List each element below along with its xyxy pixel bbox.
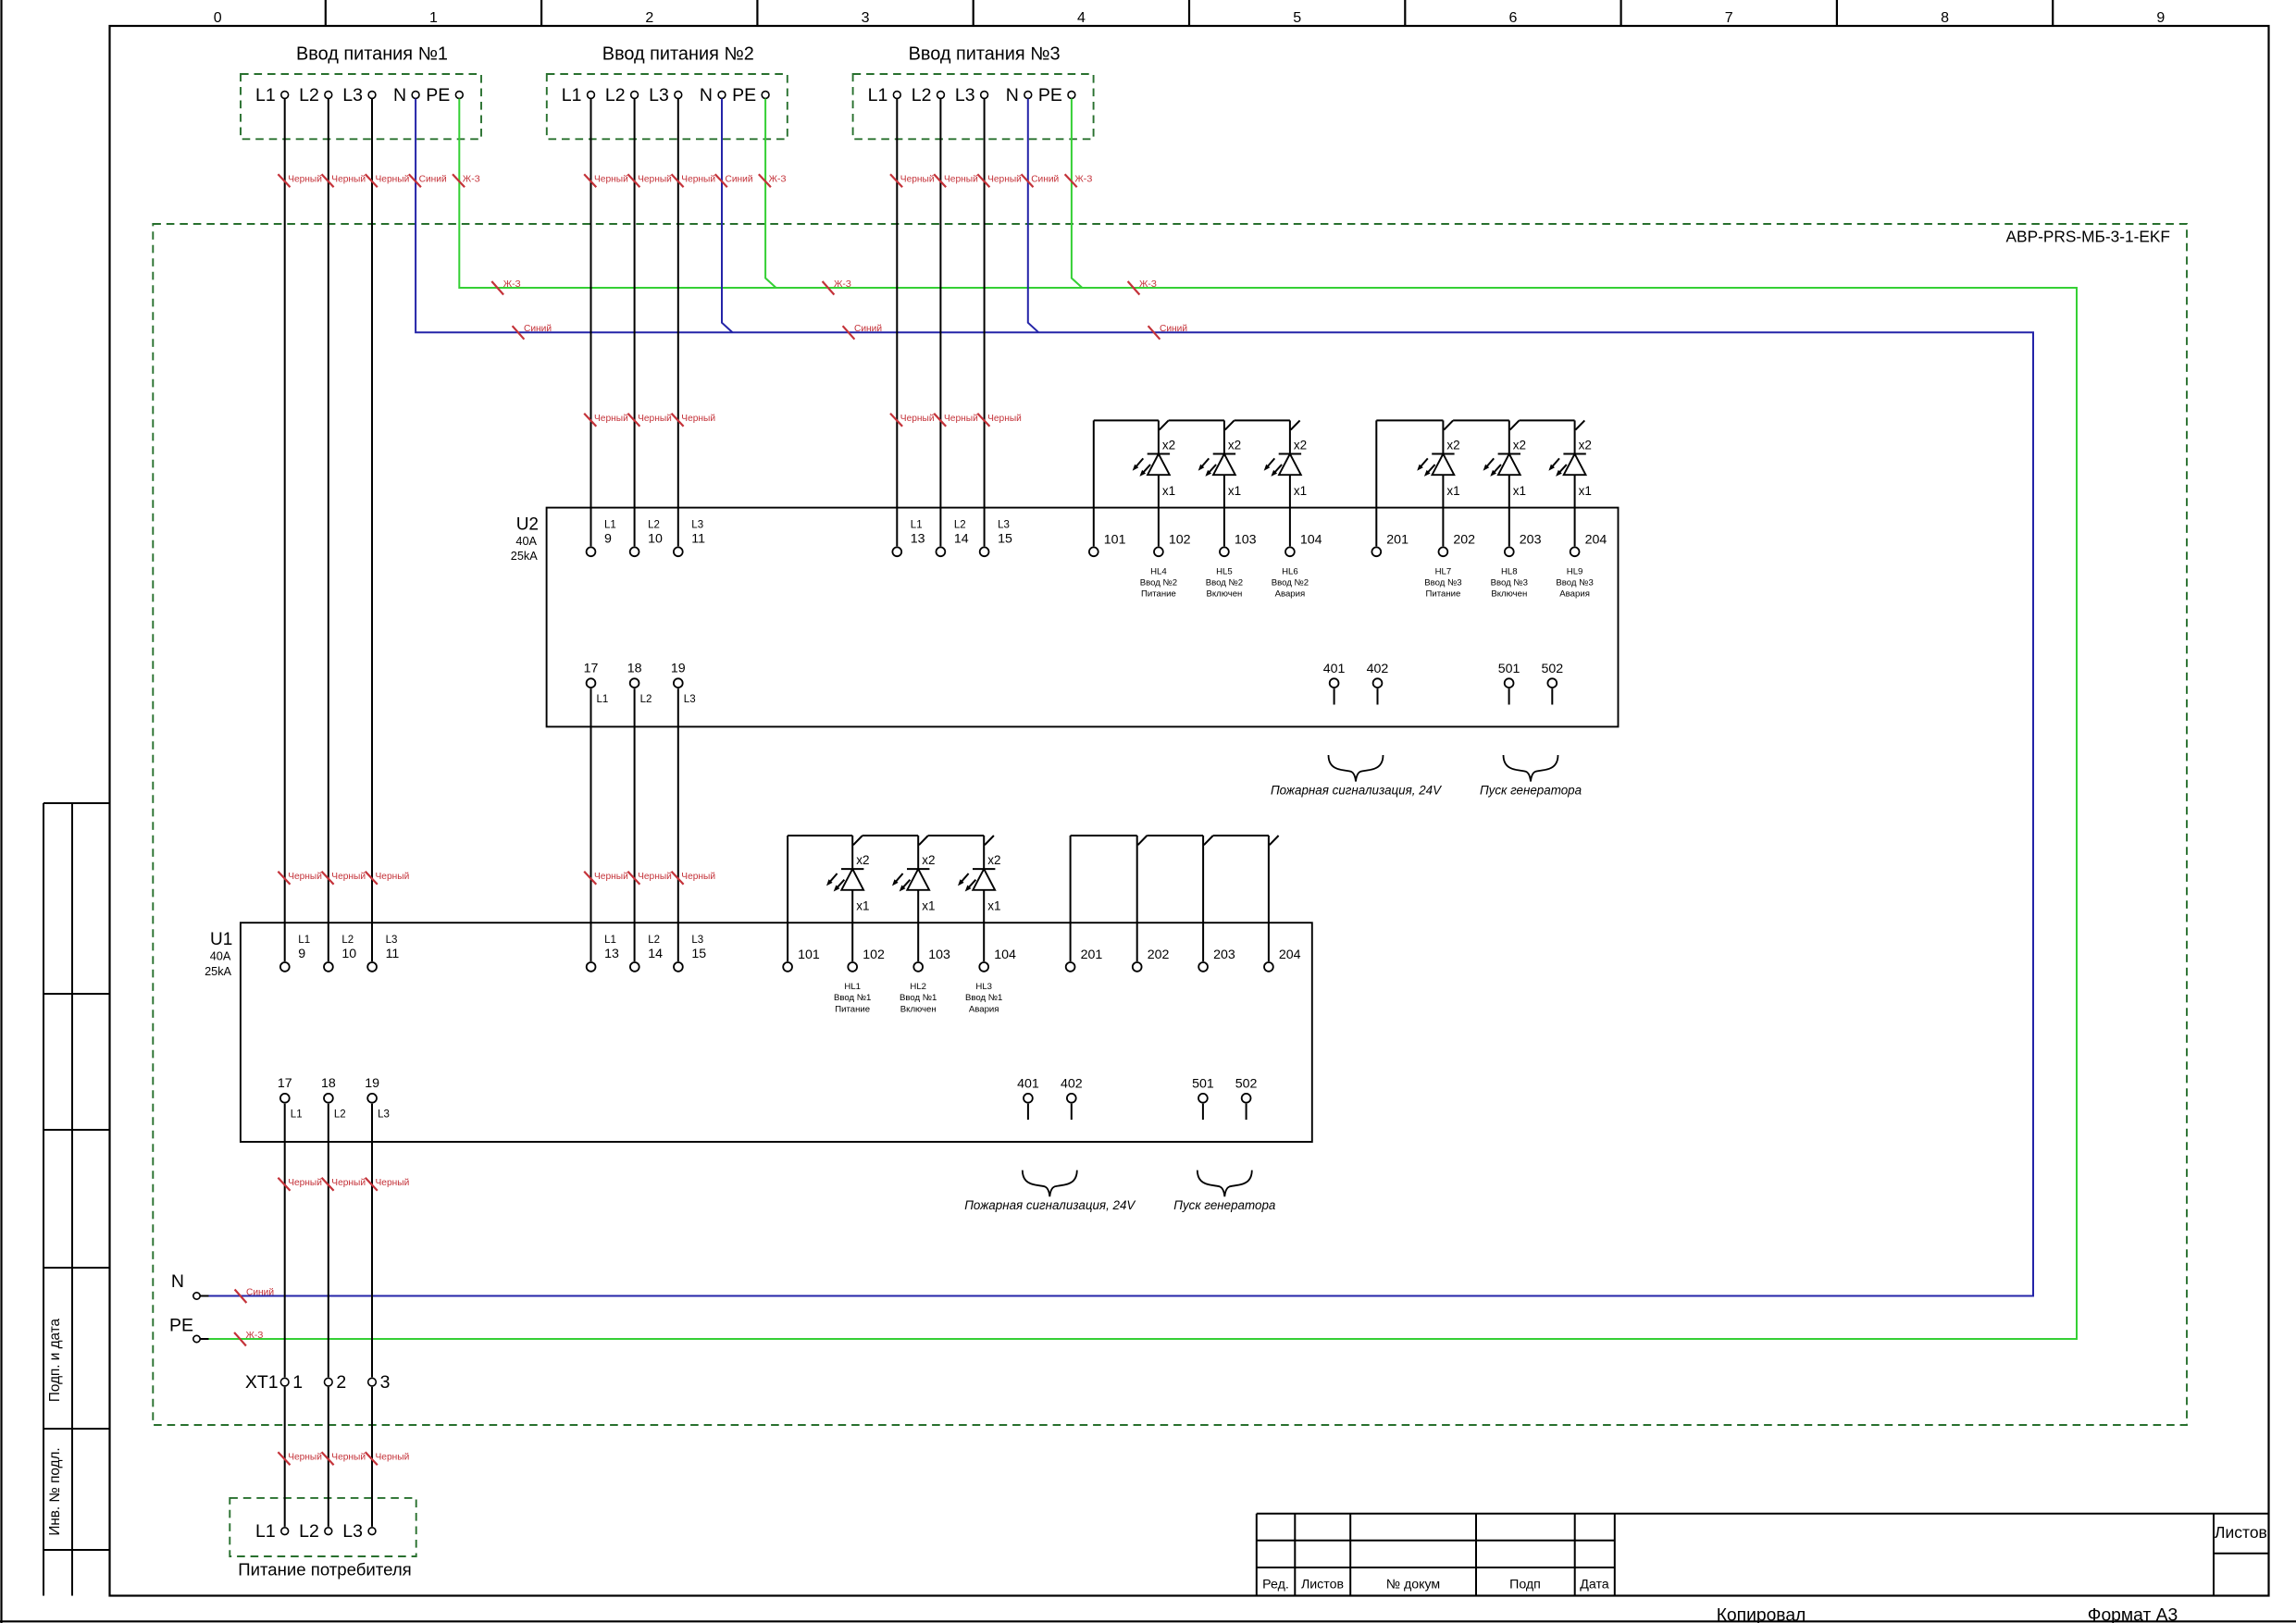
svg-text:L2: L2 — [640, 694, 652, 705]
svg-text:Ввод №1: Ввод №1 — [965, 993, 1002, 1003]
svg-text:2: 2 — [645, 10, 653, 26]
svg-text:x1: x1 — [922, 899, 935, 913]
svg-text:Синий: Синий — [726, 175, 753, 185]
svg-text:Черный: Черный — [331, 175, 366, 185]
svg-text:U2: U2 — [516, 515, 539, 535]
svg-text:401: 401 — [1017, 1077, 1039, 1092]
svg-text:HL2: HL2 — [910, 982, 926, 992]
svg-text:L1: L1 — [291, 1109, 303, 1121]
svg-text:5: 5 — [1293, 10, 1301, 26]
svg-text:Синий: Синий — [1031, 175, 1059, 185]
svg-text:502: 502 — [1541, 662, 1563, 676]
svg-text:PE: PE — [169, 1316, 193, 1336]
svg-text:Пуск генератора: Пуск генератора — [1173, 1198, 1275, 1212]
svg-text:3: 3 — [862, 10, 870, 26]
svg-text:L1: L1 — [911, 520, 923, 531]
svg-text:13: 13 — [911, 532, 925, 547]
svg-text:x2: x2 — [1294, 439, 1307, 452]
svg-text:PE: PE — [1038, 85, 1062, 105]
svg-text:13: 13 — [604, 947, 619, 961]
svg-text:HL5: HL5 — [1216, 567, 1233, 577]
svg-text:Черный: Черный — [900, 175, 935, 185]
svg-text:Ввод №1: Ввод №1 — [834, 993, 871, 1003]
svg-text:501: 501 — [1192, 1077, 1214, 1092]
svg-text:17: 17 — [584, 661, 599, 675]
svg-text:402: 402 — [1367, 662, 1389, 676]
svg-text:HL7: HL7 — [1435, 567, 1452, 577]
svg-text:11: 11 — [386, 947, 400, 961]
svg-text:9: 9 — [604, 532, 612, 547]
svg-text:Черный: Черный — [987, 414, 1022, 424]
svg-text:Черный: Черный — [681, 872, 715, 882]
svg-text:L3: L3 — [649, 85, 669, 105]
svg-text:203: 203 — [1520, 532, 1542, 547]
svg-text:Пуск генератора: Пуск генератора — [1480, 784, 1582, 798]
svg-text:L2: L2 — [648, 520, 660, 531]
svg-text:10: 10 — [341, 947, 356, 961]
svg-text:Авария: Авария — [1559, 589, 1590, 600]
svg-text:Черный: Черный — [331, 1178, 366, 1188]
svg-text:L1: L1 — [255, 85, 276, 105]
svg-text:Черный: Черный — [638, 414, 672, 424]
svg-text:Черный: Черный — [594, 872, 628, 882]
svg-text:Дата: Дата — [1580, 1578, 1609, 1592]
svg-text:0: 0 — [214, 10, 222, 26]
svg-text:Формат А3: Формат А3 — [2088, 1606, 2178, 1623]
svg-text:N: N — [171, 1271, 184, 1292]
svg-text:Ж-З: Ж-З — [834, 279, 851, 290]
svg-text:203: 203 — [1213, 948, 1235, 962]
svg-text:4: 4 — [1077, 10, 1086, 26]
svg-text:Ввод №3: Ввод №3 — [1491, 578, 1528, 588]
svg-text:Черный: Черный — [376, 1453, 410, 1463]
svg-text:Черный: Черный — [288, 1178, 322, 1188]
svg-text:101: 101 — [798, 948, 820, 962]
svg-text:Ввод №2: Ввод №2 — [1272, 578, 1309, 588]
svg-text:x1: x1 — [1294, 484, 1307, 498]
svg-text:L1: L1 — [255, 1521, 276, 1542]
svg-text:x1: x1 — [1162, 484, 1175, 498]
svg-text:1: 1 — [429, 10, 438, 26]
svg-text:Питание: Питание — [1141, 589, 1176, 600]
svg-text:x1: x1 — [856, 899, 869, 913]
svg-text:102: 102 — [863, 948, 885, 962]
svg-text:14: 14 — [954, 532, 969, 547]
svg-text:L1: L1 — [298, 935, 310, 946]
svg-text:202: 202 — [1453, 532, 1475, 547]
svg-text:x1: x1 — [1513, 484, 1526, 498]
svg-text:6: 6 — [1509, 10, 1518, 26]
svg-text:Черный: Черный — [944, 414, 978, 424]
svg-text:L3: L3 — [342, 1521, 363, 1542]
svg-text:Черный: Черный — [594, 175, 628, 185]
svg-text:Включен: Включен — [900, 1004, 937, 1014]
svg-text:Черный: Черный — [288, 1453, 322, 1463]
svg-text:40A: 40A — [210, 950, 231, 963]
svg-text:Синий: Синий — [854, 324, 882, 334]
svg-text:HL4: HL4 — [1150, 567, 1167, 577]
svg-text:Черный: Черный — [681, 175, 715, 185]
svg-text:x2: x2 — [1228, 439, 1241, 452]
svg-text:Ввод питания №3: Ввод питания №3 — [909, 44, 1061, 65]
svg-text:103: 103 — [928, 948, 950, 962]
svg-text:17: 17 — [278, 1076, 292, 1091]
svg-text:204: 204 — [1585, 532, 1607, 547]
svg-text:Черный: Черный — [638, 872, 672, 882]
svg-text:АВР-PRS-МБ-3-1-EKF: АВР-PRS-МБ-3-1-EKF — [2006, 228, 2170, 246]
svg-text:Копировал: Копировал — [1717, 1606, 1806, 1623]
svg-text:L2: L2 — [954, 520, 966, 531]
svg-text:L3: L3 — [998, 520, 1010, 531]
svg-text:L3: L3 — [342, 85, 363, 105]
svg-text:x1: x1 — [1446, 484, 1459, 498]
svg-text:L2: L2 — [648, 935, 660, 946]
svg-text:x2: x2 — [1162, 439, 1175, 452]
svg-text:Включен: Включен — [1491, 589, 1527, 600]
svg-text:Питание: Питание — [1425, 589, 1460, 600]
svg-text:14: 14 — [648, 947, 663, 961]
svg-text:Ввод №1: Ввод №1 — [900, 993, 937, 1003]
svg-text:x2: x2 — [1446, 439, 1459, 452]
svg-text:x1: x1 — [1579, 484, 1592, 498]
svg-text:Синий: Синий — [524, 324, 552, 334]
svg-text:Ввод №2: Ввод №2 — [1206, 578, 1243, 588]
svg-text:Ввод питания №2: Ввод питания №2 — [602, 44, 754, 65]
svg-text:x2: x2 — [856, 853, 869, 867]
svg-text:ХТ1: ХТ1 — [245, 1372, 279, 1393]
svg-text:L3: L3 — [691, 520, 703, 531]
svg-text:Ввод питания №1: Ввод питания №1 — [296, 44, 448, 65]
svg-text:Листов: Листов — [2215, 1523, 2267, 1542]
svg-text:x2: x2 — [922, 853, 935, 867]
svg-text:Ж-З: Ж-З — [246, 1331, 264, 1341]
svg-text:Ж-З: Ж-З — [769, 175, 787, 185]
svg-text:Включен: Включен — [1206, 589, 1242, 600]
svg-text:202: 202 — [1148, 948, 1170, 962]
svg-text:Черный: Черный — [944, 175, 978, 185]
svg-text:501: 501 — [1498, 662, 1520, 676]
svg-text:L2: L2 — [605, 85, 626, 105]
svg-text:11: 11 — [691, 532, 705, 547]
svg-text:HL1: HL1 — [844, 982, 861, 992]
svg-text:40A: 40A — [515, 535, 537, 548]
svg-text:9: 9 — [2156, 10, 2165, 26]
svg-text:3: 3 — [380, 1372, 391, 1393]
svg-text:N: N — [700, 85, 713, 105]
svg-text:1: 1 — [292, 1372, 303, 1393]
svg-text:204: 204 — [1279, 948, 1301, 962]
svg-text:x2: x2 — [1513, 439, 1526, 452]
svg-text:9: 9 — [298, 947, 305, 961]
svg-text:L1: L1 — [604, 520, 616, 531]
svg-text:Пожарная сигнализация, 24V: Пожарная сигнализация, 24V — [964, 1198, 1136, 1212]
svg-text:N: N — [393, 85, 406, 105]
svg-text:Черный: Черный — [376, 1178, 410, 1188]
svg-text:2: 2 — [336, 1372, 346, 1393]
svg-text:L3: L3 — [955, 85, 975, 105]
svg-text:Ввод №2: Ввод №2 — [1140, 578, 1177, 588]
svg-text:10: 10 — [648, 532, 663, 547]
svg-text:Ж-З: Ж-З — [463, 175, 480, 185]
svg-text:HL3: HL3 — [975, 982, 992, 992]
svg-text:401: 401 — [1323, 662, 1346, 676]
svg-text:HL8: HL8 — [1501, 567, 1518, 577]
svg-text:Черный: Черный — [376, 872, 410, 882]
svg-text:502: 502 — [1235, 1077, 1258, 1092]
svg-text:L1: L1 — [868, 85, 888, 105]
svg-text:Синий: Синий — [1160, 324, 1187, 334]
svg-text:HL9: HL9 — [1567, 567, 1583, 577]
svg-text:Ред.: Ред. — [1262, 1578, 1289, 1592]
svg-text:8: 8 — [1941, 10, 1949, 26]
svg-text:Инв. № подл.: Инв. № подл. — [47, 1447, 63, 1535]
svg-text:Подп: Подп — [1509, 1578, 1541, 1592]
svg-text:L1: L1 — [604, 935, 616, 946]
svg-text:x2: x2 — [987, 853, 1000, 867]
svg-text:Ж-З: Ж-З — [1139, 279, 1157, 290]
svg-text:L3: L3 — [684, 694, 696, 705]
svg-text:Черный: Черный — [376, 175, 410, 185]
svg-text:Авария: Авария — [1275, 589, 1306, 600]
svg-text:L2: L2 — [912, 85, 932, 105]
svg-text:402: 402 — [1061, 1077, 1083, 1092]
svg-text:Подп. и дата: Подп. и дата — [47, 1318, 63, 1402]
svg-text:Черный: Черный — [288, 872, 322, 882]
svg-text:L2: L2 — [299, 85, 319, 105]
svg-text:HL6: HL6 — [1282, 567, 1298, 577]
svg-text:Черный: Черный — [987, 175, 1022, 185]
svg-text:Ж-З: Ж-З — [1074, 175, 1092, 185]
svg-text:Черный: Черный — [594, 414, 628, 424]
svg-text:Питание: Питание — [835, 1004, 870, 1014]
svg-text:104: 104 — [994, 948, 1016, 962]
svg-text:Синий: Синий — [246, 1287, 274, 1297]
svg-text:Черный: Черный — [638, 175, 672, 185]
svg-text:Черный: Черный — [681, 414, 715, 424]
svg-text:Черный: Черный — [900, 414, 935, 424]
svg-text:Пожарная сигнализация, 24V: Пожарная сигнализация, 24V — [1271, 784, 1442, 798]
svg-text:x1: x1 — [1228, 484, 1241, 498]
svg-text:Питание потребителя: Питание потребителя — [238, 1560, 412, 1580]
svg-text:Листов: Листов — [1301, 1578, 1344, 1592]
svg-text:25kA: 25kA — [205, 965, 231, 978]
svg-text:19: 19 — [671, 661, 686, 675]
svg-text:Авария: Авария — [969, 1004, 999, 1014]
svg-text:Черный: Черный — [288, 175, 322, 185]
svg-text:PE: PE — [426, 85, 450, 105]
svg-text:7: 7 — [1725, 10, 1733, 26]
svg-text:Черный: Черный — [331, 872, 366, 882]
svg-text:102: 102 — [1169, 532, 1191, 547]
svg-text:18: 18 — [321, 1076, 336, 1091]
svg-text:N: N — [1006, 85, 1019, 105]
svg-text:L3: L3 — [378, 1109, 390, 1121]
svg-text:Ж-З: Ж-З — [503, 279, 521, 290]
svg-text:103: 103 — [1235, 532, 1257, 547]
svg-text:L1: L1 — [597, 694, 609, 705]
svg-text:PE: PE — [732, 85, 756, 105]
svg-text:L1: L1 — [562, 85, 582, 105]
svg-text:Синий: Синий — [419, 175, 447, 185]
svg-text:x1: x1 — [987, 899, 1000, 913]
svg-text:101: 101 — [1104, 532, 1126, 547]
svg-text:Ввод №3: Ввод №3 — [1556, 578, 1593, 588]
svg-text:104: 104 — [1300, 532, 1322, 547]
svg-text:25kA: 25kA — [511, 550, 538, 563]
svg-text:L2: L2 — [334, 1109, 346, 1121]
svg-text:Черный: Черный — [331, 1453, 366, 1463]
svg-text:19: 19 — [365, 1076, 379, 1091]
svg-text:x2: x2 — [1579, 439, 1592, 452]
svg-text:№ докум: № докум — [1386, 1578, 1440, 1592]
svg-text:15: 15 — [691, 947, 706, 961]
svg-text:L3: L3 — [386, 935, 398, 946]
svg-text:15: 15 — [998, 532, 1012, 547]
svg-text:L3: L3 — [691, 935, 703, 946]
svg-text:Ввод №3: Ввод №3 — [1424, 578, 1461, 588]
svg-text:L2: L2 — [299, 1521, 319, 1542]
svg-text:201: 201 — [1386, 532, 1409, 547]
svg-text:U1: U1 — [210, 930, 232, 949]
svg-text:L2: L2 — [341, 935, 354, 946]
svg-text:201: 201 — [1081, 948, 1103, 962]
svg-text:18: 18 — [627, 661, 642, 675]
